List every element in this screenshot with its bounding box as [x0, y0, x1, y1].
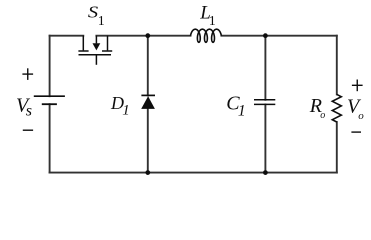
- svg-text:1: 1: [209, 14, 216, 29]
- svg-text:o: o: [320, 110, 325, 121]
- svg-text:1: 1: [98, 14, 105, 29]
- svg-text:o: o: [358, 110, 364, 122]
- svg-text:s: s: [26, 103, 32, 120]
- svg-text:1: 1: [238, 102, 246, 119]
- svg-text:1: 1: [122, 103, 130, 119]
